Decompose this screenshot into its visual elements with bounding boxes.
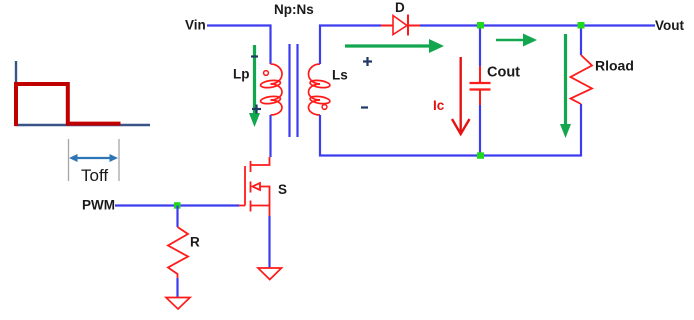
label plus secondary	[363, 57, 372, 66]
current arrow load (green)	[560, 34, 571, 138]
primary phasing dot	[264, 71, 269, 76]
label plus primary	[252, 105, 261, 114]
junction node top of Rload	[578, 22, 585, 29]
wire Rload branch	[580, 26, 582, 157]
wire PWM to gate	[115, 204, 239, 206]
wire diode to Vout (top rail)	[420, 24, 655, 26]
capacitor Cout	[470, 66, 491, 105]
diode D	[381, 15, 420, 36]
current arrow primary (green)	[249, 45, 260, 127]
svg-text:Ls: Ls	[332, 68, 348, 83]
current arrow secondary (green)	[345, 39, 444, 53]
svg-text:D: D	[395, 0, 405, 15]
svg-text:PWM: PWM	[82, 198, 115, 213]
resistor Rload	[571, 55, 593, 104]
transistor S (NMOS)	[239, 157, 270, 216]
wire bottom rail	[480, 154, 581, 156]
wire secondary bottom	[320, 115, 480, 156]
ground under R	[166, 298, 190, 310]
waveform pulse	[16, 84, 121, 126]
svg-text:Vin: Vin	[185, 18, 206, 33]
svg-text:Rload: Rload	[595, 58, 634, 74]
wire R to ground	[176, 278, 178, 297]
current arrow into Cout node (green)	[496, 34, 537, 47]
junction node top of Cout	[477, 22, 484, 29]
waveform axis	[15, 61, 150, 126]
svg-text:Toff: Toff	[81, 166, 108, 185]
svg-text:Lp: Lp	[233, 67, 250, 82]
Toff marker lines	[69, 139, 120, 181]
wire drain to primary	[269, 115, 271, 157]
Toff arrow	[69, 154, 118, 162]
svg-text:Ic: Ic	[433, 98, 445, 113]
label minus secondary	[361, 106, 368, 108]
wire Vin to primary	[207, 26, 271, 65]
wire junction to R	[176, 206, 178, 228]
current arrow Ic (red)	[452, 57, 470, 134]
wire source to ground	[268, 216, 270, 268]
ground under source	[258, 268, 282, 280]
svg-text:Cout: Cout	[487, 65, 520, 81]
wire secondary top to diode	[320, 26, 381, 65]
inductor Ls (secondary winding)	[309, 64, 331, 115]
svg-text:Vout: Vout	[655, 18, 684, 33]
junction node bottom of Cout	[477, 152, 484, 159]
transformer core	[290, 44, 298, 137]
resistor R	[168, 227, 188, 278]
svg-text:S: S	[278, 182, 287, 197]
secondary phasing dot	[322, 105, 327, 110]
label minus primary	[251, 55, 258, 57]
inductor Lp (primary winding)	[260, 64, 282, 115]
svg-text:Np:Ns: Np:Ns	[274, 2, 314, 17]
junction node PWM/R	[174, 202, 181, 209]
svg-text:R: R	[190, 235, 200, 250]
wire Cout branch	[479, 26, 481, 157]
